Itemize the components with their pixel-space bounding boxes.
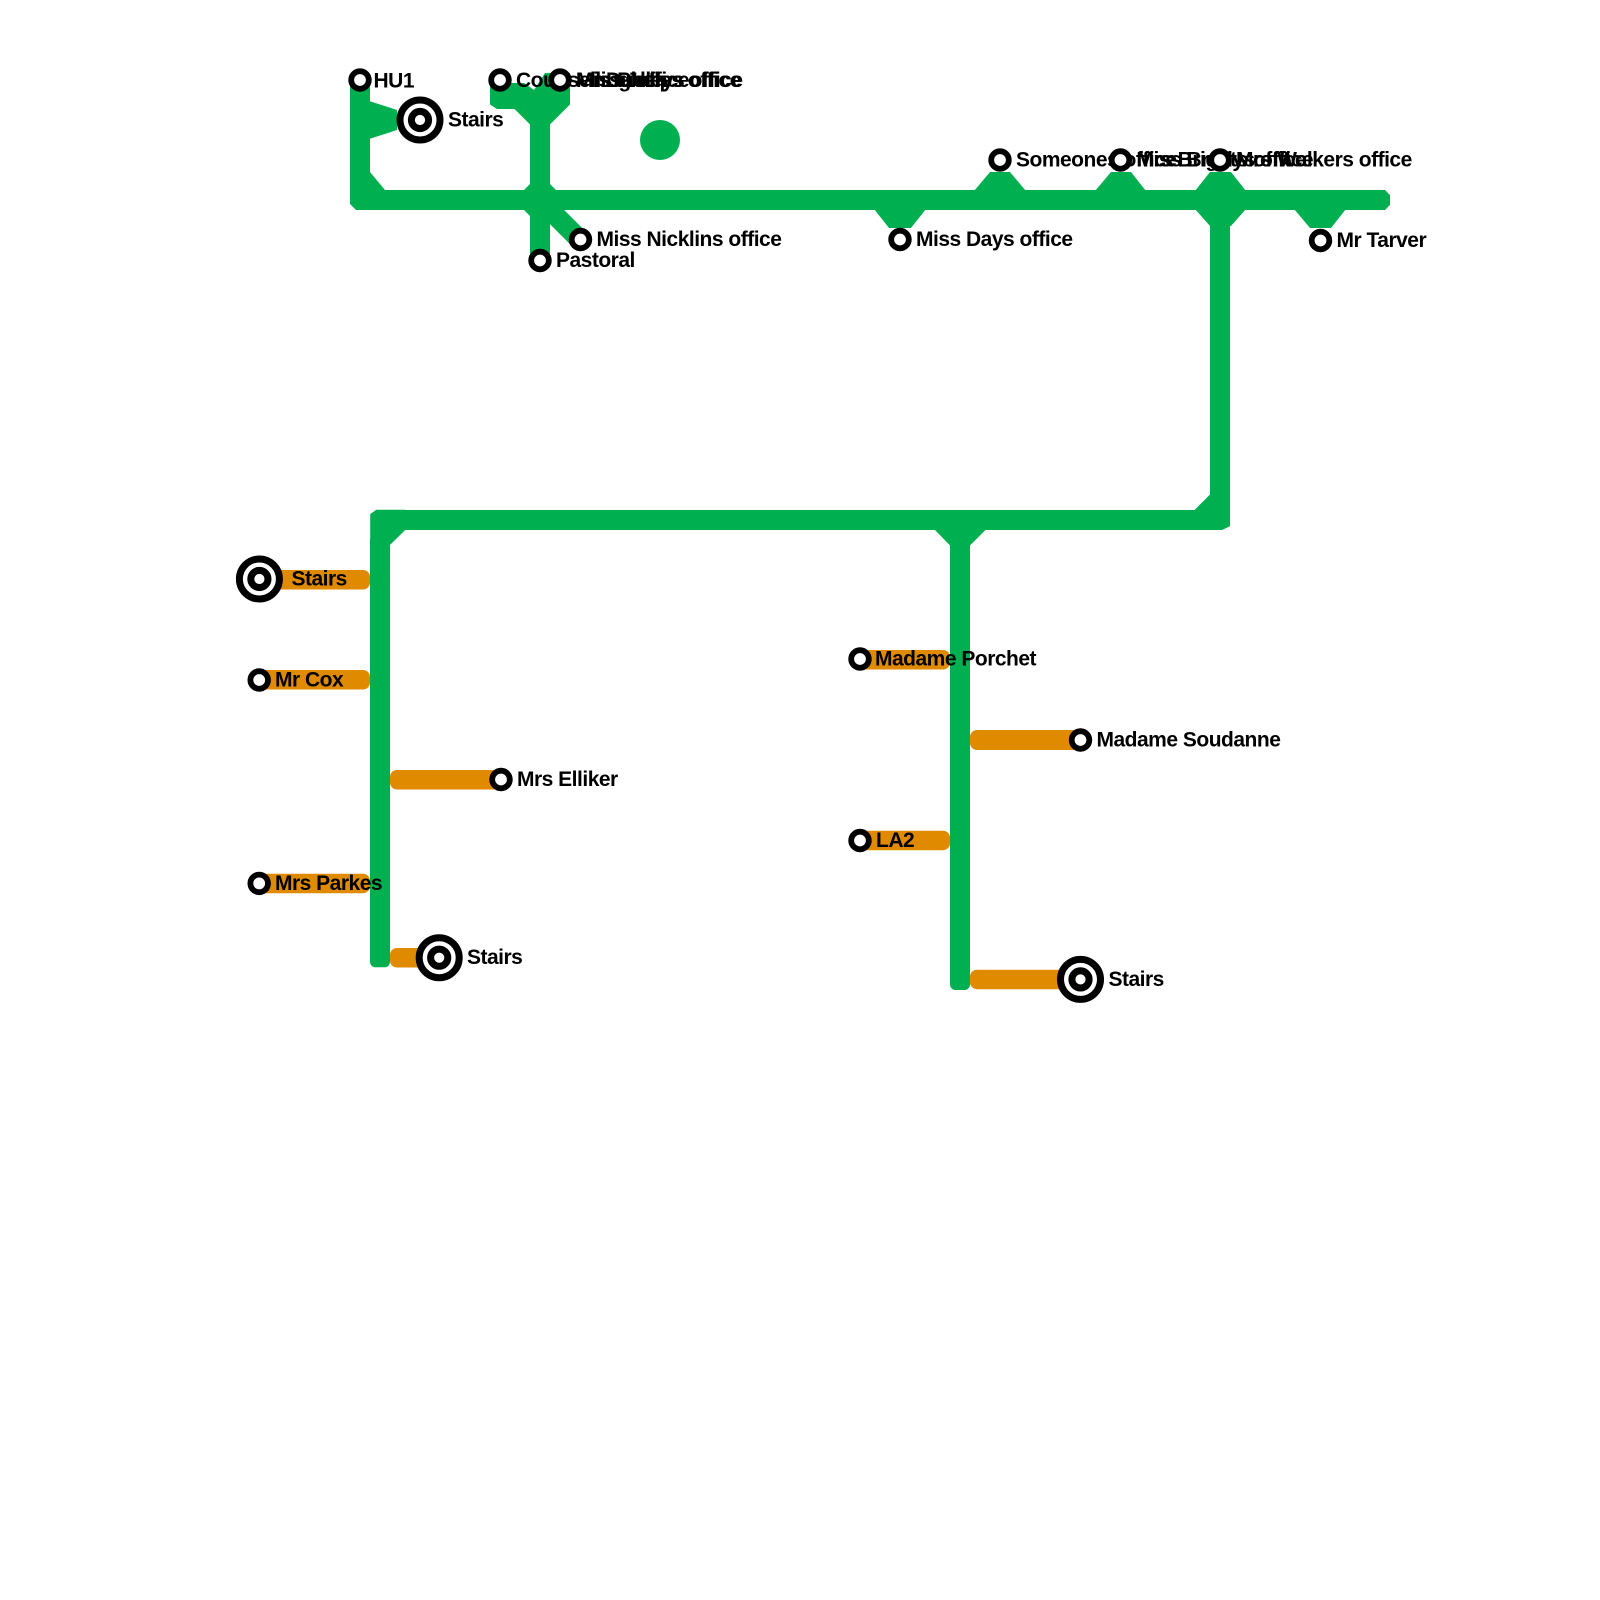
- station counselling: [491, 71, 509, 89]
- wire: right end cap: [1378, 190, 1390, 210]
- svg-text:Mr Cox: Mr Cox: [275, 669, 344, 692]
- station Mr Cox: [250, 671, 268, 689]
- svg-text:LA2: LA2: [876, 829, 914, 852]
- wire: corner left of second floor: [370, 510, 405, 545]
- interchange stairs second floor left: [239, 559, 279, 599]
- label Miss Br: [1137, 149, 1314, 172]
- wire: wedge down at 1220: [1195, 209, 1246, 226]
- station Mrs Parkes: [250, 875, 268, 893]
- svg-text:Stairs: Stairs: [292, 568, 347, 591]
- station Mr Tarver: [1312, 232, 1330, 250]
- svg-text:Stairs: Stairs: [467, 946, 522, 969]
- bar: stairs bottom-left: [390, 948, 440, 968]
- svg-text:Mrs Parkes: Mrs Parkes: [275, 872, 382, 895]
- interchange stairs bottom-left: [419, 938, 459, 978]
- bar: LA2: [853, 831, 950, 851]
- station Pastoral: [531, 252, 549, 270]
- wire: HU1 vertical: [350, 80, 370, 180]
- wire: wedge up at 1220: [1195, 172, 1246, 191]
- station Miss Nicklins: [572, 231, 590, 249]
- wire: left wing vertical: [370, 535, 390, 967]
- station Walkers office: [1211, 151, 1229, 169]
- station Miss Days office: [891, 231, 909, 249]
- wire: big vertical from top floor: [1210, 200, 1230, 500]
- wire: arm to Miss Nicklins: [546, 206, 580, 240]
- bar: Mr Cox: [252, 670, 370, 690]
- svg-text:Miss Nicklins office: Miss Nicklins office: [597, 228, 782, 251]
- bar: Mrs Parkes: [252, 874, 370, 894]
- bar: Madame Porchet: [853, 650, 950, 670]
- svg-text:Madame Porchet: Madame Porchet: [875, 647, 1037, 670]
- svg-text:Mrs Walkers office: Mrs Walkers office: [1236, 149, 1412, 172]
- station offices cluster: [551, 71, 569, 89]
- wire: wedge to Miss Br station: [1095, 172, 1146, 191]
- wire: wedge to Miss Days office: [874, 209, 926, 228]
- wire: wedge to Mr Tarver: [1294, 209, 1346, 228]
- svg-text:Stairs: Stairs: [448, 109, 503, 132]
- wire: second floor corridor: [400, 510, 1200, 530]
- interchange stairs bottom-right: [1061, 959, 1101, 999]
- svg-text:Pastoral: Pastoral: [556, 249, 635, 272]
- bar: stairs bottom-right: [970, 970, 1081, 990]
- wire: funnel junction at right branch: [935, 530, 987, 546]
- wire: Y stem vertical at 540: [530, 108, 550, 260]
- wire: Y junction blob at 540: [490, 73, 570, 125]
- interchange stairs top: [400, 100, 440, 140]
- station Madame Porchet: [851, 650, 869, 668]
- node: junction diamond at 540,200: [514, 174, 566, 226]
- station Someones office: [991, 151, 1009, 169]
- station HU1: [351, 71, 369, 89]
- wire: wedge to Someones office: [974, 172, 1026, 191]
- wire: right branch vertical: [950, 528, 970, 990]
- station LA2: [851, 832, 869, 850]
- station Miss Br: [1112, 151, 1130, 169]
- bar: Mrs Elliker: [390, 770, 502, 790]
- wire: main top corridor: [380, 190, 1380, 210]
- station Mrs Elliker: [492, 771, 510, 789]
- node: green dot: [640, 120, 680, 160]
- svg-text:Mr Tarver: Mr Tarver: [1337, 229, 1427, 252]
- wire: corner HU1 bend: [350, 172, 385, 210]
- svg-text:Miss Days office: Miss Days office: [916, 228, 1073, 251]
- wire: wedge to top stairs: [360, 98, 397, 142]
- svg-text:Mr Dudleys office: Mr Dudleys office: [576, 69, 743, 92]
- bar: Madame Soudanne: [970, 730, 1081, 750]
- svg-text:HU1: HU1: [374, 70, 415, 93]
- svg-text:Stairs: Stairs: [1109, 968, 1164, 991]
- wire: corner right of second floor: [1195, 495, 1231, 531]
- station Madame Soudanne: [1072, 731, 1090, 749]
- bar: stairs left: [252, 570, 370, 590]
- label Walkers: [1236, 149, 1412, 172]
- svg-text:Madame Soudanne: Madame Soudanne: [1097, 729, 1281, 752]
- label cluster offices: [576, 69, 743, 92]
- svg-text:Mrs Elliker: Mrs Elliker: [517, 768, 618, 791]
